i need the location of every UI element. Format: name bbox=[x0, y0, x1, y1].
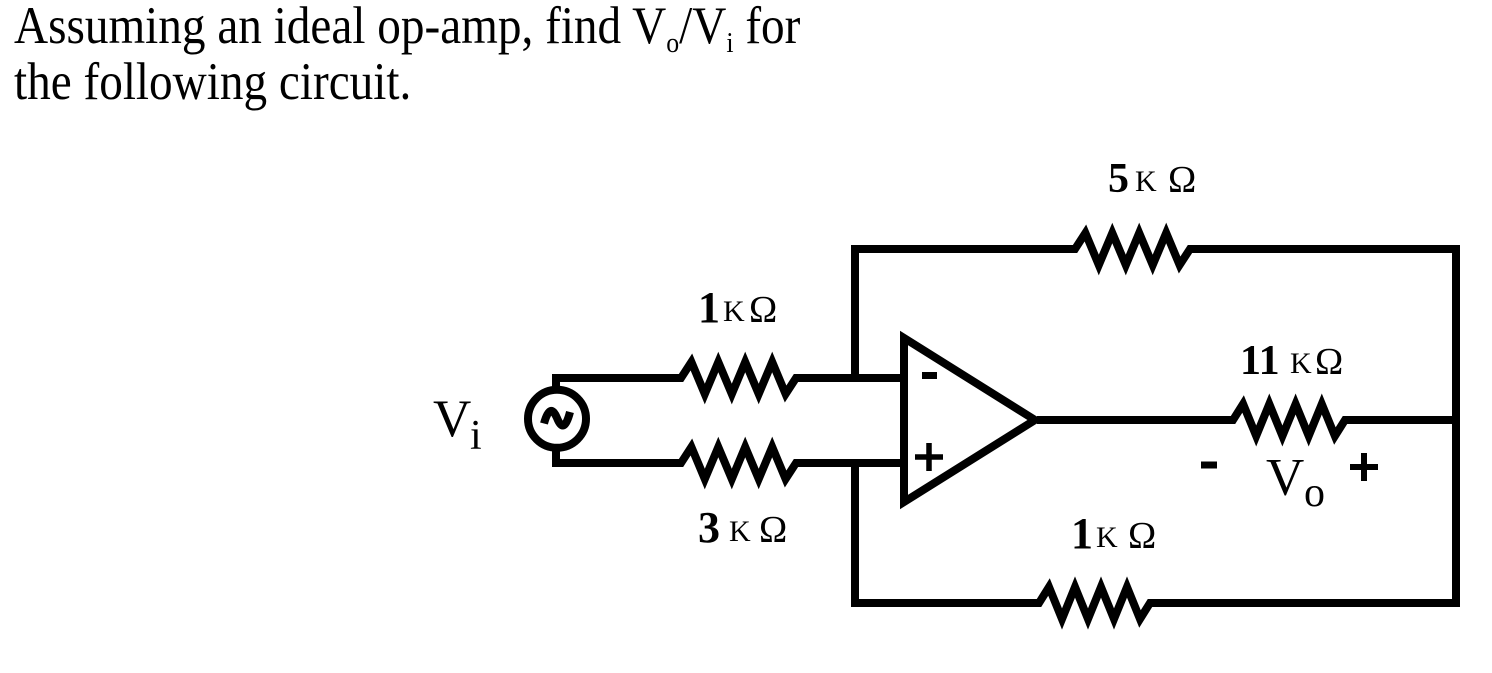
svg-text:Ω: Ω bbox=[1168, 159, 1196, 201]
label Vo plus sign bbox=[1350, 453, 1378, 481]
svg-text:the following circuit.: the following circuit. bbox=[14, 51, 411, 110]
svg-text:K: K bbox=[723, 295, 745, 328]
svg-text:o: o bbox=[1304, 470, 1325, 516]
op-amp U1 minus input marker bbox=[922, 372, 937, 379]
wire: right rail bbox=[1452, 249, 1460, 603]
svg-text:Ω: Ω bbox=[759, 509, 787, 551]
source Vi: AC voltage source circle bbox=[528, 390, 586, 448]
wire: bottom rail with resistor R5 1KΩ zigzag bbox=[851, 587, 1460, 619]
svg-text:K: K bbox=[1290, 347, 1312, 380]
svg-text:Ω: Ω bbox=[1315, 341, 1343, 383]
svg-text:1: 1 bbox=[698, 283, 720, 332]
wire: inverting input (Vi top to op-amp) with resistor R1 1KΩ zigzag bbox=[556, 362, 904, 394]
source Vi: sine symbol bbox=[544, 411, 570, 426]
op-amp U1 triangle bbox=[904, 338, 1035, 502]
svg-text:Ω: Ω bbox=[749, 289, 777, 331]
svg-text:V: V bbox=[1266, 449, 1304, 507]
wire: output with resistor R4 11KΩ zigzag bbox=[1037, 404, 1456, 436]
wire: feedback left leg (inverting node up to top rail) bbox=[851, 249, 859, 378]
wire: non-inverting input (Vi bottom to op-amp) with resistor R2 3KΩ zigzag bbox=[556, 445, 904, 479]
svg-text:3: 3 bbox=[698, 503, 720, 552]
svg-text:1: 1 bbox=[1071, 509, 1093, 558]
svg-text:Ω: Ω bbox=[1128, 515, 1156, 557]
label Vo minus sign bbox=[1201, 462, 1217, 469]
wire: top rail with resistor R3 5KΩ zigzag bbox=[851, 233, 1460, 265]
svg-text:K: K bbox=[1135, 165, 1157, 198]
svg-text:Assuming an ideal op-amp, find: Assuming an ideal op-amp, find Vo/Vi for bbox=[14, 0, 801, 58]
svg-text:K: K bbox=[729, 515, 751, 548]
svg-text:V: V bbox=[433, 390, 471, 448]
op-amp U1 plus input marker bbox=[915, 443, 943, 471]
svg-text:i: i bbox=[470, 413, 482, 459]
svg-text:5: 5 bbox=[1108, 156, 1129, 202]
svg-text:K: K bbox=[1096, 521, 1118, 554]
svg-text:11: 11 bbox=[1240, 338, 1280, 384]
wire: feedback bottom leg (non-inverting node down to bottom rail) bbox=[851, 463, 859, 603]
